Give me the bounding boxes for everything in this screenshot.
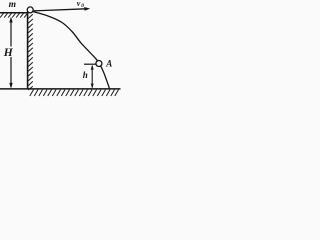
h dimension line (vertical, double arrow) bbox=[91, 65, 94, 89]
point A circle bbox=[96, 61, 102, 67]
trajectory curve bbox=[33, 12, 110, 89]
h reference tick line bbox=[84, 63, 98, 65]
v0 velocity arrow bbox=[34, 7, 91, 11]
platform top ledge line bbox=[0, 12, 28, 14]
svg-text:0: 0 bbox=[81, 3, 84, 9]
svg-text:H: H bbox=[3, 47, 14, 59]
wall line bbox=[27, 12, 29, 89]
mass m circle bbox=[27, 7, 33, 13]
svg-text:A: A bbox=[105, 59, 112, 69]
wall hatching bbox=[28, 14, 33, 90]
ledge hatching bbox=[0, 13, 27, 17]
ground hatching bbox=[30, 90, 119, 96]
svg-text:m: m bbox=[9, 0, 16, 10]
svg-text:v: v bbox=[77, 0, 81, 8]
H dimension line (vertical, double arrow) bbox=[9, 17, 12, 89]
svg-text:h: h bbox=[83, 70, 88, 80]
ground line bbox=[0, 88, 121, 90]
